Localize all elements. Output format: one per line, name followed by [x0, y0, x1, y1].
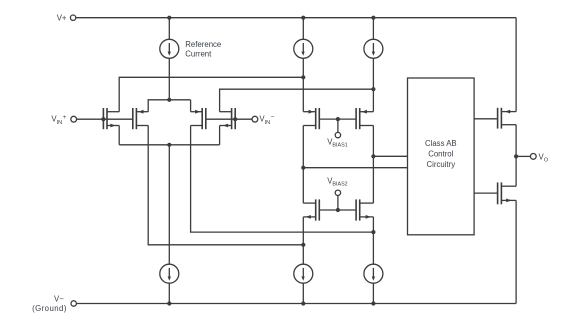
current source I3 (bottom left of pair)	[294, 264, 313, 283]
wire reference column down (through mirror node and tail node)	[168, 58, 170, 100]
current source I4 (bottom right of pair)	[364, 264, 383, 283]
wire output node to V_O terminal	[516, 155, 530, 157]
node bottom rail / column B	[301, 301, 305, 305]
wire column B upper segment	[302, 58, 304, 111]
wire V_BIAS2 gate line U7-U8	[319, 209, 356, 211]
wire T3 source leg down to bus line 4	[191, 126, 374, 233]
svg-text:V−: V−	[54, 295, 64, 304]
transistor Q_P (output PMOS)	[498, 108, 516, 129]
svg-text:Reference: Reference	[185, 40, 221, 49]
wire top rail V+	[76, 17, 516, 19]
svg-text:V+: V+	[57, 13, 67, 22]
node column C to box upper line	[371, 154, 375, 158]
node top rail / reference column junction	[167, 16, 171, 20]
wire top rail down to output PMOS	[515, 18, 517, 112]
wire bottom rail V-	[76, 303, 516, 305]
node top rail / column B junction	[301, 16, 305, 20]
wire T1 drain riser to bus line 1	[119, 77, 303, 111]
node column B to box lower line	[301, 166, 305, 170]
transistor U8 (lower cascode NMOS right)	[356, 199, 373, 220]
svg-text:−: −	[271, 114, 275, 121]
V_IN- label	[259, 114, 274, 126]
V_O terminal	[530, 154, 536, 160]
V_IN+ label	[51, 114, 66, 126]
wire V+ rail to current source I1	[302, 18, 304, 40]
svg-text:IN: IN	[57, 120, 63, 126]
node bus5 to column B	[301, 243, 305, 247]
svg-text:Circuitry: Circuitry	[427, 160, 456, 169]
current source I_REF (Reference Current)	[160, 39, 179, 58]
wire column C middle segment	[372, 126, 374, 204]
wire V_BIAS1 gate line U5-U6	[319, 118, 356, 120]
svg-text:IN: IN	[265, 120, 271, 126]
V_BIAS1 terminal	[335, 132, 340, 137]
V+ terminal	[70, 15, 75, 20]
node output	[514, 154, 518, 158]
wire T2 source leg down to bus line 5	[148, 126, 303, 245]
node bottom rail / tail column	[167, 301, 171, 305]
wire column B middle segment	[302, 126, 304, 204]
wire T3 drain riser to mirror line	[190, 100, 192, 112]
V_IN+ terminal	[71, 116, 77, 122]
node bus1 to column B	[301, 75, 305, 79]
svg-text:Control: Control	[428, 150, 453, 159]
svg-text:(Ground): (Ground)	[32, 304, 67, 313]
wire V_BIAS2 stem	[337, 196, 339, 211]
node top rail / column C junction	[371, 16, 375, 20]
svg-text:Current: Current	[185, 50, 212, 59]
V_BIAS2 label	[327, 177, 347, 188]
wire box to output PMOS gate	[474, 118, 498, 120]
transistor T3 (input PMOS, V_IN-)	[191, 108, 206, 129]
node input tail junction	[167, 143, 171, 147]
svg-text:Class AB: Class AB	[425, 139, 457, 148]
transistor T2 (input PMOS, V_IN+)	[133, 108, 148, 129]
Class AB Control Circuitry label	[425, 139, 457, 169]
node V_BIAS2 stem	[336, 208, 340, 212]
wire column C lower segment	[372, 217, 374, 264]
wire T4 drain riser to bus line 2	[220, 89, 374, 112]
svg-text:BIAS2: BIAS2	[332, 181, 347, 187]
wire V_BIAS1 stem	[337, 119, 339, 132]
transistor U6 (upper cascode PMOS right)	[356, 108, 373, 129]
wire T4 source to tail line	[219, 126, 221, 145]
wire box to output NMOS gate	[474, 192, 498, 194]
node V_BIAS1 stem	[336, 117, 340, 121]
wire column C to Class AB box (upper input)	[373, 155, 407, 157]
current source I1	[294, 39, 313, 58]
transistor T4 (input NMOS, V_IN-)	[220, 108, 236, 129]
node T2/T3 drain join	[167, 98, 171, 102]
transistor U7 (lower cascode NMOS left)	[303, 199, 319, 220]
wire column C upper segment	[372, 58, 374, 111]
transistor Q_N (output NMOS)	[498, 182, 516, 204]
V- terminal	[71, 301, 76, 306]
wire bottom current sources to rail	[169, 283, 373, 303]
node bus4 to column C	[371, 230, 375, 234]
wire column B lower segment	[302, 217, 304, 264]
V- (Ground) label	[32, 295, 67, 313]
transistor U5 (upper cascode PMOS left)	[303, 108, 319, 129]
wire V+ rail to reference current source	[168, 18, 170, 40]
Class AB Control Circuitry box	[408, 78, 475, 235]
wire output PMOS drain down to output node	[515, 125, 517, 187]
V_IN- terminal	[252, 116, 258, 122]
current source I5 (tail bottom)	[160, 264, 179, 283]
transistor T1 (input NMOS, V_IN+)	[103, 108, 119, 129]
wire V+ rail to current source I2	[372, 18, 374, 40]
V_O label	[539, 152, 549, 163]
svg-text:+: +	[63, 114, 67, 121]
node bus2 to column C	[371, 87, 375, 91]
current source I2	[364, 39, 383, 58]
wire T1 source to tail line	[118, 126, 120, 145]
wire T2 drain riser to mirror line	[148, 100, 190, 112]
wire V_IN- gate line from T3/T4 gates	[206, 118, 252, 120]
wire column B to Class AB box (lower input)	[303, 167, 407, 169]
node V_IN- at T4 gate	[233, 117, 237, 121]
svg-text:O: O	[544, 157, 549, 163]
V_BIAS2 terminal	[335, 190, 340, 195]
node bottom rail / column C	[371, 301, 375, 305]
node V_IN+ at T1 gate	[101, 117, 105, 121]
svg-text:BIAS1: BIAS1	[332, 142, 347, 148]
wire output NMOS source down to V- rail	[515, 200, 517, 303]
V_BIAS1 label	[327, 137, 347, 148]
wire input tail line	[119, 144, 219, 146]
wire V_IN+ gate line to T1 and T2 gates	[76, 118, 132, 120]
